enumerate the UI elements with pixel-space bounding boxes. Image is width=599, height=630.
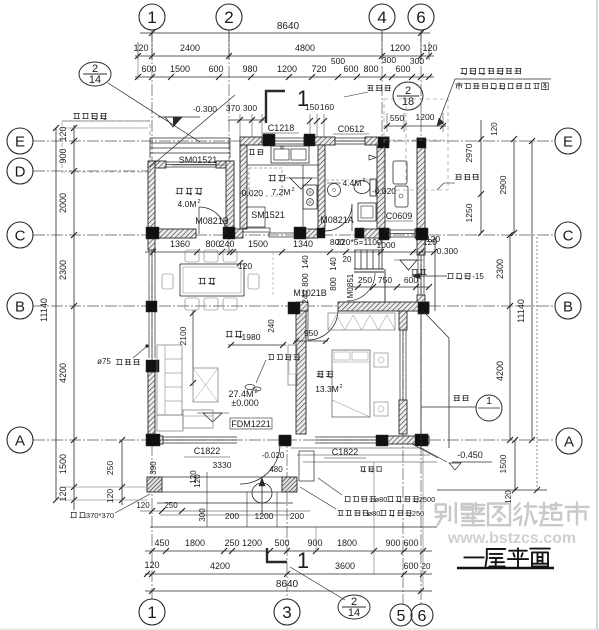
svg-text:6: 6 [418, 608, 427, 625]
svg-text:-0.300: -0.300 [434, 246, 458, 256]
svg-text:1200: 1200 [277, 64, 297, 74]
window C1822 west wall [148, 250, 150, 358]
svg-text:120: 120 [144, 560, 159, 570]
svg-text:950: 950 [304, 328, 318, 338]
svg-text:800: 800 [301, 273, 310, 287]
svg-text:900: 900 [58, 148, 68, 163]
axis line 2 vertical [228, 30, 230, 252]
label stair ref [448, 273, 454, 275]
axis line 3 vertical [286, 436, 288, 599]
wall kitchen west [240, 145, 247, 229]
kitchen counter line [247, 164, 318, 166]
svg-text:1: 1 [147, 603, 156, 622]
svg-text:240: 240 [267, 319, 276, 333]
svg-text:600: 600 [403, 538, 418, 548]
axis bubble C left [7, 222, 33, 248]
column 1 [146, 227, 159, 239]
svg-text:450: 450 [154, 538, 169, 548]
laundry sink upper [393, 161, 407, 184]
svg-text:1200: 1200 [416, 112, 435, 122]
svg-text:200: 200 [290, 511, 304, 521]
svg-text:300: 300 [243, 103, 257, 113]
svg-text:-0.020: -0.020 [262, 451, 285, 460]
dim 550/1200 septic [384, 125, 446, 127]
wall east upper (axis6) [417, 138, 425, 238]
svg-text:600: 600 [395, 64, 410, 74]
leader 2/14 to steps [108, 83, 200, 142]
label storage under stair [412, 269, 418, 271]
label AC note 2 [338, 510, 344, 512]
laundry sink lower [395, 186, 408, 207]
svg-text:M0851: M0851 [346, 273, 355, 298]
dining chair top 3 [223, 250, 237, 262]
svg-text:1200: 1200 [242, 538, 262, 548]
axis bubble C right [555, 222, 581, 248]
svg-text:550: 550 [390, 113, 404, 123]
wall C row seg3 [296, 229, 318, 238]
extension vertical bottom 374 [373, 462, 375, 574]
svg-text:250: 250 [358, 275, 372, 285]
kitchen dashed cabinet [249, 168, 282, 196]
svg-text:120: 120 [58, 486, 68, 501]
svg-text:4800: 4800 [295, 43, 315, 53]
AC leaders [318, 478, 342, 495]
svg-text:120: 120 [504, 490, 513, 504]
svg-text:390: 390 [149, 461, 158, 475]
living dashed line [272, 252, 274, 296]
svg-text:140: 140 [329, 257, 338, 271]
svg-text:3: 3 [282, 603, 291, 622]
label bedroom [317, 370, 323, 372]
svg-text:1500: 1500 [248, 239, 268, 249]
svg-text:250: 250 [105, 461, 115, 475]
svg-text:120: 120 [105, 489, 115, 503]
svg-text:14: 14 [89, 74, 101, 86]
column 13 [418, 302, 429, 314]
svg-text:C1822: C1822 [194, 446, 221, 456]
detail bubble 2/14 bottom [338, 595, 370, 619]
svg-text:C0609: C0609 [386, 211, 413, 221]
dimension row top 8640 [140, 32, 430, 34]
svg-text:140: 140 [301, 255, 310, 269]
svg-text:370*370: 370*370 [86, 511, 114, 520]
svg-text:980: 980 [242, 64, 257, 74]
detail bubble 2/18 septic [393, 82, 423, 110]
svg-text:370: 370 [226, 103, 240, 113]
page edge bottom [0, 628, 599, 630]
title first floor plan [464, 556, 483, 558]
door M1021B arc bedroom [308, 310, 338, 340]
label fan position [268, 354, 274, 356]
column 6 [417, 138, 426, 148]
dining chair top 2 [204, 250, 218, 262]
axis line 6 vertical [420, 30, 422, 604]
svg-text:4.0M: 4.0M [178, 199, 197, 209]
dim 950 door [294, 340, 328, 342]
label FDM1221 [230, 418, 272, 429]
svg-text:1360: 1360 [170, 239, 190, 249]
wall C row seg2 [226, 229, 243, 238]
svg-text:2: 2 [362, 178, 365, 184]
porch slab line1 [162, 476, 282, 478]
svg-text:2500: 2500 [419, 495, 435, 504]
extension line porch left 1 [60, 486, 147, 488]
dimension column left lower 250/120 [121, 440, 123, 505]
wall C row seg4 [355, 229, 390, 238]
section mark 1 top [266, 91, 285, 123]
svg-text:A: A [15, 432, 25, 449]
dimension row bottom level1 [145, 550, 432, 552]
dining chair top 1 [185, 250, 199, 262]
level mark kitchen [290, 178, 312, 189]
wall west mid-low [148, 372, 155, 434]
svg-text:14: 14 [348, 607, 360, 619]
terrace eave upper [434, 237, 436, 311]
svg-text:120: 120 [136, 501, 150, 510]
terrace eave diagonal [422, 310, 449, 338]
door under-stair arc [347, 273, 375, 301]
svg-text:1500: 1500 [170, 64, 190, 74]
dimension column right 2900 [513, 139, 515, 233]
svg-text:M1021B: M1021B [293, 288, 327, 298]
svg-text:300: 300 [382, 55, 396, 65]
svg-text:13.3M: 13.3M [315, 384, 339, 394]
svg-text:4200: 4200 [495, 361, 505, 381]
svg-text:120: 120 [422, 43, 437, 53]
svg-text:1: 1 [297, 548, 309, 573]
svg-text:-15: -15 [472, 272, 484, 281]
svg-text:800: 800 [329, 277, 338, 291]
svg-text:2400: 2400 [180, 43, 200, 53]
svg-text:2: 2 [291, 187, 294, 193]
column 8 [317, 228, 325, 238]
svg-text:240: 240 [219, 239, 234, 249]
label storage room [177, 187, 184, 189]
svg-text:500: 500 [274, 538, 289, 548]
wall C row seg1 [148, 229, 196, 238]
axis line D horizontal [33, 170, 156, 172]
svg-text:20: 20 [343, 255, 352, 264]
splash leader [421, 406, 476, 408]
axis bubble 6 top [408, 4, 434, 30]
svg-text:160: 160 [320, 102, 334, 112]
column 18 [376, 435, 388, 446]
svg-text:600: 600 [343, 64, 358, 74]
svg-text:1340: 1340 [293, 239, 313, 249]
bed [332, 350, 370, 417]
wall B row seg2 [338, 302, 429, 311]
svg-text:7.2M: 7.2M [272, 187, 291, 197]
sofa main [157, 345, 182, 415]
extension vertical bottom 423 [422, 448, 424, 591]
wall C row seg5 [415, 229, 425, 238]
svg-text:300: 300 [198, 508, 207, 522]
svg-text:ø75: ø75 [97, 357, 111, 366]
window east stair [417, 255, 419, 295]
arrow marker alcove [369, 155, 376, 160]
svg-text:1500: 1500 [498, 454, 508, 473]
dining table [180, 264, 244, 296]
svg-text:3330: 3330 [213, 460, 232, 470]
wall storage west [148, 161, 155, 238]
axis bubble E left [7, 128, 33, 154]
svg-text:C: C [563, 227, 574, 244]
watermark main [436, 503, 446, 505]
svg-text:120: 120 [426, 234, 440, 244]
svg-text:8640: 8640 [276, 579, 299, 590]
porch vertical edges [206, 472, 208, 527]
svg-text:750: 750 [378, 275, 392, 285]
svg-text:600: 600 [208, 64, 223, 74]
leader 2/14 bottom [290, 567, 345, 600]
dimension column right 2300/4200 [509, 235, 511, 440]
extension line wall top left [60, 127, 148, 129]
dining chair bottom 2 [204, 298, 218, 310]
axis line A horizontal [33, 439, 555, 441]
dining chair right [248, 274, 259, 289]
svg-text:120: 120 [58, 126, 68, 141]
svg-text:720: 720 [311, 64, 326, 74]
wall under-stair storage [384, 269, 386, 302]
svg-text:4: 4 [377, 8, 386, 27]
svg-text:2: 2 [197, 199, 200, 205]
svg-text:2300: 2300 [495, 259, 505, 279]
dim 1980 living [228, 344, 286, 346]
svg-text:-0.020: -0.020 [372, 186, 396, 196]
extension vertical bottom 316 [315, 527, 317, 551]
dim row below C wall [145, 251, 435, 253]
wall bedroom east seg1 [399, 311, 407, 330]
SE steps lines [291, 447, 421, 449]
svg-text:200: 200 [225, 511, 239, 521]
svg-text:120: 120 [133, 43, 148, 53]
label kitchen counter [249, 149, 255, 151]
label AC note 1 [345, 496, 351, 498]
column 2 [223, 227, 235, 239]
wall bath east [377, 145, 385, 229]
svg-text:C: C [15, 227, 26, 244]
svg-text:1500: 1500 [58, 454, 68, 474]
wall bath west [318, 145, 325, 229]
svg-text:4.4M: 4.4M [343, 178, 362, 188]
dimension right bottom 1500/120 [514, 440, 516, 490]
stair treads [354, 250, 356, 269]
window C1822 south living [163, 436, 237, 438]
door FDM1221 arc porch [240, 444, 280, 484]
axis bubble E right [555, 128, 581, 154]
window C1218 [262, 137, 304, 139]
svg-text:FDM1221: FDM1221 [231, 419, 271, 429]
wall A row seg3 [377, 436, 429, 444]
axis bubble B left [7, 293, 33, 319]
svg-text:300: 300 [410, 56, 424, 66]
door SM1521 sliding symbol [243, 228, 270, 232]
svg-text:800: 800 [363, 64, 378, 74]
svg-text:250: 250 [224, 538, 239, 548]
label sewage well 1 [367, 85, 373, 87]
column 17 [279, 435, 291, 446]
sofa corner [157, 415, 183, 431]
door M0821B arc storage [199, 207, 226, 234]
sofa small [183, 410, 213, 428]
label kitchen [269, 174, 276, 176]
AC outdoor unit [299, 451, 314, 481]
dimension column right septic 2970/1250 [480, 120, 482, 233]
dimension row bottom 8640 [145, 590, 432, 592]
wardrobe [328, 313, 395, 330]
svg-text:1000: 1000 [377, 240, 396, 250]
dining chair bottom 1 [185, 298, 199, 310]
dimension row top level2 [135, 76, 434, 78]
svg-text:2: 2 [224, 8, 233, 27]
svg-text:6: 6 [416, 8, 425, 27]
dimension row top level1 [135, 55, 434, 57]
svg-text:4200: 4200 [58, 363, 68, 383]
column 9 [355, 228, 364, 238]
level mark -0.300 top-left [165, 117, 182, 127]
svg-text:1: 1 [147, 8, 156, 27]
section mark 1 bottom [267, 548, 287, 562]
svg-text:M0821B: M0821B [195, 216, 229, 226]
extension line porch left 2 [60, 499, 147, 501]
svg-text:E: E [563, 133, 573, 150]
svg-text:2100: 2100 [178, 326, 188, 345]
label splash apron [454, 395, 460, 397]
svg-text:2970: 2970 [464, 143, 474, 162]
bath toilet [354, 181, 370, 194]
svg-text:600: 600 [141, 64, 156, 74]
svg-text:E: E [15, 133, 25, 150]
svg-text:120: 120 [490, 122, 499, 136]
column 14 [146, 301, 157, 312]
bath dashed partition [326, 179, 376, 181]
svg-text:250: 250 [164, 501, 178, 510]
column 19 [415, 434, 428, 446]
dim stair row [352, 286, 429, 288]
window C0609 [390, 229, 415, 231]
porch step line [157, 502, 293, 504]
porch pillar left [147, 477, 162, 492]
bath shower [358, 203, 376, 221]
axis line 1 vertical [151, 30, 153, 599]
bath basin [328, 184, 341, 197]
column 4 [304, 134, 315, 146]
wall A row seg2 [279, 436, 291, 444]
svg-text:C0612: C0612 [338, 124, 365, 134]
wall A row seg1 [148, 436, 163, 444]
svg-text:500: 500 [331, 56, 345, 66]
column 10 [379, 228, 389, 240]
column 15 [146, 360, 159, 372]
svg-text:1200: 1200 [390, 43, 410, 53]
dimension column right 11140 [531, 141, 533, 440]
label shed position [73, 112, 79, 114]
svg-text:-0.020: -0.020 [239, 188, 263, 198]
entry arrow circle [252, 483, 272, 503]
entry steps [150, 137, 230, 139]
wall storage east [226, 161, 234, 238]
septic leader [455, 78, 551, 80]
axis line 4 vertical [381, 30, 383, 252]
column 5 [378, 137, 389, 148]
title underline [457, 567, 554, 570]
svg-text:D: D [15, 163, 26, 180]
axis line B horizontal [33, 305, 555, 307]
porch slab line2 [147, 491, 297, 493]
column 16 [146, 434, 160, 446]
column 7 [294, 227, 306, 239]
svg-text:220*5=1100: 220*5=1100 [336, 237, 382, 247]
svg-text:600: 600 [404, 275, 418, 285]
septic dashed inner [405, 99, 407, 190]
svg-text:B: B [563, 298, 573, 315]
svg-text:1: 1 [486, 396, 492, 407]
terrace eave corner [448, 338, 450, 448]
svg-text:1200: 1200 [255, 511, 274, 521]
dining chair left [162, 274, 173, 289]
svg-text:5: 5 [397, 608, 406, 625]
svg-text:2: 2 [339, 384, 342, 390]
axis line E horizontal [33, 140, 555, 142]
level mark living [203, 413, 222, 422]
svg-text:ø80: ø80 [375, 495, 388, 504]
svg-text:SM01521: SM01521 [179, 155, 218, 165]
kitchen sink [271, 146, 309, 163]
svg-text:1800: 1800 [337, 538, 357, 548]
wall east mid seg1 [417, 238, 425, 255]
shed dashed rect [62, 121, 150, 172]
door M0821A arc bath [325, 204, 352, 231]
wall kitchen north seg1 [240, 137, 262, 145]
wall storage north-east segment [216, 161, 234, 168]
dining chair bottom 3 [223, 298, 237, 310]
svg-text:900: 900 [307, 538, 322, 548]
axis bubble A left [7, 427, 33, 453]
detail bubble 1 splash [476, 395, 502, 421]
kitchen stove [303, 185, 317, 209]
svg-text:800: 800 [205, 239, 220, 249]
axis line 5 vertical [402, 306, 404, 604]
svg-text:1: 1 [297, 86, 309, 111]
svg-text:8640: 8640 [277, 21, 300, 32]
label living [226, 330, 232, 332]
axis line C horizontal [33, 234, 555, 236]
TV stand [288, 345, 297, 385]
svg-text:120: 120 [189, 470, 198, 484]
leader shed cross [150, 95, 235, 167]
window bedroom east [399, 330, 401, 400]
porch dim line [140, 510, 310, 512]
label AC outdoor [360, 466, 366, 468]
svg-text:B: B [15, 298, 25, 315]
svg-text:250: 250 [412, 509, 424, 518]
porch ground line [150, 526, 437, 528]
axis bubble D left [7, 158, 33, 184]
wall bedroom west [296, 311, 306, 434]
kitchen fridge [247, 207, 265, 227]
dimension column left outer 11140 [55, 128, 57, 500]
column 3 [263, 134, 275, 146]
svg-text:600: 600 [403, 561, 418, 571]
wall B row seg1 [296, 302, 308, 311]
wall storage north-west segment [148, 161, 166, 168]
label dining [199, 277, 206, 279]
axis bubble 1 bottom [139, 599, 165, 625]
SE steps diagonals [412, 444, 438, 458]
stair storage label leader [412, 275, 447, 277]
label brick pillar [71, 512, 77, 514]
svg-text:2300: 2300 [58, 260, 68, 280]
